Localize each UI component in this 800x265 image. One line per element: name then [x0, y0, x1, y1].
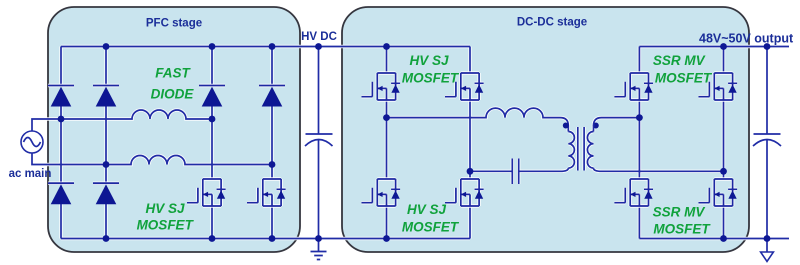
diode D4 [259, 86, 285, 107]
svg-text:HV DC: HV DC [301, 31, 337, 43]
wire: secondary bridge leg D [723, 47, 725, 239]
wire: branch 3 vertical (boost leg 1) [211, 47, 213, 239]
PFC stage box [48, 7, 300, 252]
ground [311, 239, 327, 260]
svg-text:MOSFET: MOSFET [655, 71, 713, 86]
wire: phase A with resonant inductor Lr [387, 108, 569, 131]
svg-text:HV SJ: HV SJ [409, 53, 449, 68]
wire: output bus vertical [766, 47, 768, 239]
svg-text:MOSFET: MOSFET [653, 221, 711, 236]
transistor Q2 (PFC HV SJ MOSFET) [247, 179, 286, 206]
wire: primary bridge leg B [469, 47, 471, 239]
transistor Q4 (HV SJ MOSFET upper B) [445, 73, 484, 100]
output return arrow [766, 239, 768, 253]
node dots: bottom rail junctions [103, 235, 771, 242]
wire white glow underlay [32, 47, 789, 239]
transformer T1 core [578, 127, 584, 171]
wire: secondary top rail 48V [639, 46, 789, 48]
wire: branch 4 vertical (boost leg 2) [271, 47, 273, 239]
transistor Q7 (SSR MV MOSFET upper C) [614, 73, 653, 100]
transformer primary polarity dot [563, 123, 569, 129]
svg-text:FAST: FAST [155, 66, 191, 81]
svg-text:SSR MV: SSR MV [653, 53, 706, 68]
wire: primary bridge leg A [386, 47, 388, 239]
capacitor Cr (series) [512, 159, 518, 185]
transistor Q1 (PFC HV SJ MOSFET) [187, 179, 226, 206]
transistor Q5 (HV SJ MOSFET lower A) [362, 179, 401, 206]
wire: phase B to series capacitor Cr [470, 168, 568, 171]
diode D1 [48, 86, 74, 107]
diode D3 [199, 86, 225, 107]
wire: secondary bridge leg C [638, 47, 640, 239]
transistor Q3 (HV SJ MOSFET upper A) [362, 73, 401, 100]
diode D6 [93, 183, 119, 204]
svg-text:MOSFET: MOSFET [402, 220, 460, 235]
transformer T1 secondary winding [587, 132, 593, 169]
svg-text:DC-DC stage: DC-DC stage [517, 17, 587, 29]
node dots: top rail junctions [103, 43, 771, 50]
wire: bridge branch 2 vertical [105, 47, 107, 239]
svg-text:HV SJ: HV SJ [145, 201, 185, 216]
svg-text:SSR MV: SSR MV [653, 204, 706, 219]
svg-text:MOSFET: MOSFET [137, 218, 195, 233]
wire: secondary top lead [594, 118, 640, 132]
wire: ac line 2 with boost inductor L2 [32, 153, 272, 165]
transformer secondary polarity dot [593, 123, 599, 129]
DC-DC stage box [342, 7, 749, 252]
wire: secondary bottom lead [594, 168, 724, 171]
ac source V1 [21, 131, 43, 153]
diode D5 [48, 183, 74, 204]
svg-text:48V~50V output: 48V~50V output [699, 31, 794, 45]
diode D2 [93, 86, 119, 107]
transistor Q6 (HV SJ MOSFET lower B) [445, 179, 484, 206]
svg-text:PFC stage: PFC stage [146, 18, 202, 30]
svg-text:HV SJ: HV SJ [407, 202, 447, 217]
svg-text:DIODE: DIODE [151, 86, 195, 101]
transistor Q9 (SSR MV MOSFET lower C) [614, 179, 653, 206]
node HV DC bus wire [318, 47, 320, 239]
wire: HV+ top rail (PFC to primary bridge) [61, 46, 470, 48]
capacitor C2 (output) [753, 134, 781, 146]
transistor Q10 (SSR MV MOSFET lower D) [699, 179, 738, 206]
wire: ac line 1 with boost inductor L1 [32, 110, 212, 131]
svg-text:ac main: ac main [9, 168, 52, 180]
wire: bridge branch 1 vertical [60, 47, 62, 239]
wire: negative bottom rail (PFC to primary bridge) [61, 238, 470, 240]
wire: secondary bottom rail [639, 238, 789, 240]
node dots: mid junctions [58, 114, 727, 175]
svg-text:MOSFET: MOSFET [402, 71, 460, 86]
capacitor C1 (HV DC bulk) [305, 134, 333, 146]
transformer T1 primary winding [568, 132, 574, 169]
transistor Q8 (SSR MV MOSFET upper D) [699, 73, 738, 100]
